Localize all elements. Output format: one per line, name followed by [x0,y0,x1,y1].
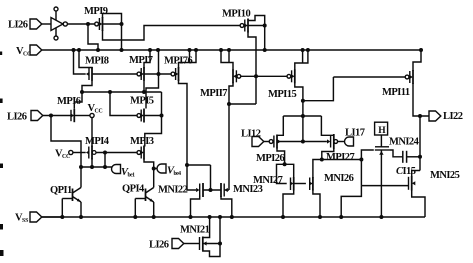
svg-text:MNI24: MNI24 [389,137,420,148]
svg-text:LI22: LI22 [443,111,463,122]
svg-text:MPI3: MPI3 [130,136,154,147]
svg-text:MPI11: MPI11 [382,87,410,98]
svg-text:LI12: LI12 [241,129,261,140]
svg-text:QPI4: QPI4 [122,184,145,195]
svg-text:MPI6: MPI6 [57,96,81,107]
svg-text:MNI25: MNI25 [430,170,460,181]
svg-text:QPI1: QPI1 [50,185,72,196]
svg-text:MPI9: MPI9 [84,6,108,17]
svg-text:LI26: LI26 [149,240,169,251]
svg-text:MPI15: MPI15 [268,89,296,100]
svg-text:MNI22: MNI22 [158,185,188,196]
svg-text:MNI21: MNI21 [180,225,210,236]
svg-text:CI15: CI15 [396,166,416,177]
svg-text:MPI5: MPI5 [130,96,154,107]
svg-text:MPI7: MPI7 [129,55,153,66]
svg-text:MPI27: MPI27 [326,152,354,163]
svg-text:MNI23: MNI23 [233,184,263,195]
svg-text:LI17: LI17 [345,128,365,139]
svg-text:LI26: LI26 [7,112,27,123]
svg-text:MPI10: MPI10 [222,9,250,20]
svg-text:LI26: LI26 [8,20,28,31]
svg-text:MNI26: MNI26 [324,173,354,184]
svg-text:MPI26: MPI26 [256,153,284,164]
svg-text:MPII7: MPII7 [200,88,227,99]
svg-text:H: H [378,126,386,136]
svg-text:MPI8: MPI8 [85,56,109,67]
svg-text:MPI4: MPI4 [85,136,110,147]
svg-text:MPI76: MPI76 [164,56,192,67]
